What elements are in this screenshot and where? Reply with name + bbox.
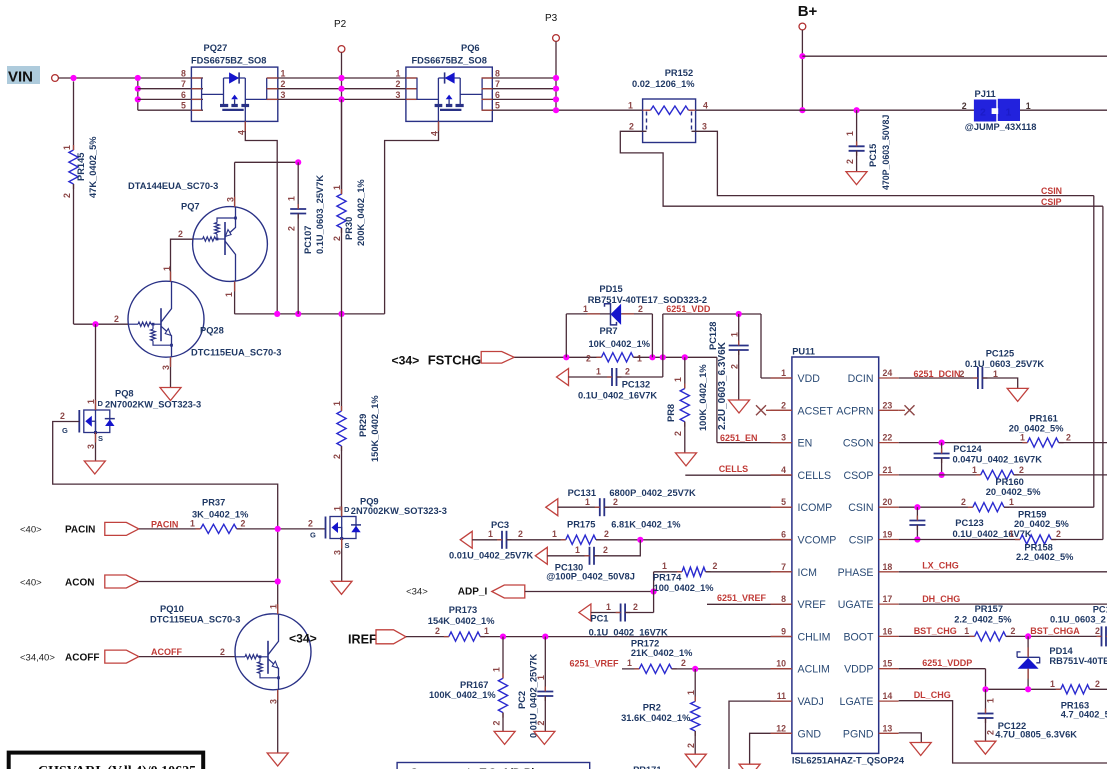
svg-text:2: 2: [603, 545, 608, 555]
wire PQ7 pin3 to PC107 top: [234, 162, 236, 206]
wire PHASE row: [899, 571, 1107, 573]
svg-text:PACIN: PACIN: [151, 520, 178, 530]
svg-text:0.01U_0402_25V7K: 0.01U_0402_25V7K: [449, 551, 534, 561]
resistor PR157: [975, 632, 1006, 641]
svg-text:200K_0402_1%: 200K_0402_1%: [356, 179, 366, 246]
svg-text:PC15: PC15: [868, 144, 878, 167]
resistor PR29: [341, 314, 343, 411]
junction CSON/PC124: [939, 440, 945, 446]
svg-text:1: 1: [606, 602, 611, 612]
svg-text:5: 5: [781, 497, 786, 507]
svg-text:4.7U_0805_6.3V6K: 4.7U_0805_6.3V6K: [995, 730, 1077, 740]
svg-text:1: 1: [396, 69, 401, 79]
svg-text:100K_0402_1%: 100K_0402_1%: [698, 364, 708, 431]
svg-text:21: 21: [883, 465, 893, 475]
svg-text:PR152: PR152: [665, 68, 693, 78]
wire VDDP row: [899, 668, 986, 670]
svg-text:1: 1: [596, 367, 601, 377]
wire PQ28 emitter to ground: [170, 357, 172, 388]
svg-text:CSON: CSON: [843, 438, 874, 450]
svg-text:0.1U_0603_2: 0.1U_0603_2: [1050, 614, 1106, 624]
junction dots FSTCHG row: [563, 354, 569, 360]
svg-text:PHASE: PHASE: [838, 567, 874, 579]
svg-text:PJ11: PJ11: [975, 89, 996, 99]
svg-text:1: 1: [281, 69, 286, 79]
wire row5 PQ6 to PR152: [482, 109, 643, 111]
svg-text:G: G: [62, 426, 68, 435]
svg-text:1: 1: [673, 377, 683, 382]
svg-text:2: 2: [1066, 432, 1071, 442]
wire PQ7 pin1 down: [234, 281, 236, 314]
svg-text:19: 19: [883, 530, 893, 540]
resistor PR158: [1020, 535, 1051, 544]
svg-text:2: 2: [629, 122, 634, 132]
svg-text:10K_0402_1%: 10K_0402_1%: [589, 339, 651, 349]
svg-text:2: 2: [60, 411, 65, 421]
svg-text:PR171: PR171: [633, 765, 661, 769]
svg-text:PR157: PR157: [975, 604, 1003, 614]
wire row7 PQ6-P3: [482, 88, 557, 90]
capacitor PC107: [297, 162, 299, 209]
svg-text:1: 1: [332, 185, 342, 190]
svg-text:16: 16: [883, 626, 893, 636]
junction ACLIM/PR2: [692, 666, 698, 672]
junction VCOMP/PC130: [637, 537, 643, 543]
svg-text:2: 2: [492, 721, 502, 726]
wire pin7 row left: [138, 88, 203, 90]
svg-text:2: 2: [713, 561, 718, 571]
wire PR37 to PQ9 gate: [237, 528, 326, 530]
wire PR152 pin2 to CSIP: [620, 131, 1103, 206]
svg-text:1: 1: [333, 506, 343, 511]
svg-text:1: 1: [627, 658, 632, 668]
capacitor PC123: [916, 507, 918, 520]
svg-text:VDD: VDD: [798, 373, 821, 385]
svg-text:PR174: PR174: [653, 573, 682, 583]
svg-text:6251_EN: 6251_EN: [720, 433, 758, 443]
svg-text:<34>: <34>: [289, 632, 317, 646]
svg-text:<40>: <40>: [20, 525, 42, 536]
svg-text:100K_0402_1%: 100K_0402_1%: [429, 690, 496, 700]
svg-text:BST_CHG: BST_CHG: [914, 626, 957, 636]
capacitor PC15: [856, 110, 858, 146]
svg-text:EN: EN: [798, 438, 813, 450]
svg-text:2: 2: [518, 529, 523, 539]
svg-text:PR161: PR161: [1029, 413, 1057, 423]
svg-text:1: 1: [552, 529, 557, 539]
svg-text:1: 1: [287, 196, 297, 201]
node VIN: [7, 66, 40, 84]
svg-text:2: 2: [962, 101, 967, 111]
svg-text:22: 22: [883, 433, 893, 443]
svg-text:6251_VREF: 6251_VREF: [717, 593, 767, 603]
svg-text:ACOFF: ACOFF: [151, 647, 182, 657]
no-connect ACSET: [756, 405, 766, 415]
svg-text:0.1U_0402_16V7K: 0.1U_0402_16V7K: [953, 529, 1032, 539]
svg-text:1: 1: [269, 604, 279, 609]
svg-text:UGATE: UGATE: [838, 599, 874, 611]
svg-text:BOOT: BOOT: [843, 631, 874, 643]
transistor PQ10: [235, 614, 311, 690]
svg-text:2: 2: [1011, 626, 1016, 636]
svg-text:1: 1: [781, 368, 786, 378]
svg-text:PR159: PR159: [1018, 509, 1046, 519]
junction ACON: [275, 578, 281, 584]
svg-text:6251_VDD: 6251_VDD: [666, 304, 711, 314]
svg-text:PC107: PC107: [303, 226, 313, 254]
wire PQ8 gate net: [53, 422, 278, 615]
junction PC107 top: [295, 159, 301, 165]
wire FSTCHG row: [514, 356, 601, 358]
svg-text:BST_CHGA: BST_CHGA: [1030, 626, 1080, 636]
svg-text:11: 11: [777, 691, 786, 701]
svg-text:8: 8: [495, 69, 500, 79]
svg-text:15: 15: [883, 659, 893, 669]
ground PQ8: [84, 461, 105, 474]
svg-text:1: 1: [662, 561, 667, 571]
svg-text:VADJ: VADJ: [798, 696, 824, 708]
svg-text:2: 2: [308, 519, 313, 529]
svg-text:1: 1: [628, 101, 633, 111]
svg-text:ACSET: ACSET: [798, 405, 834, 417]
wire row6 PQ6-P3: [482, 98, 557, 100]
svg-text:PR7: PR7: [600, 326, 618, 336]
svg-text:CSIN: CSIN: [848, 502, 873, 514]
svg-text:8: 8: [181, 69, 186, 79]
svg-text:2: 2: [1056, 529, 1061, 539]
wire PQ8 drain: [95, 324, 97, 410]
svg-text:2: 2: [332, 236, 342, 241]
resistor PR173: [449, 632, 480, 641]
svg-text:ISL6251AHAZ-T_QSOP24: ISL6251AHAZ-T_QSOP24: [792, 756, 905, 766]
svg-text:2: 2: [638, 304, 643, 314]
junction BOOT/PD14: [1025, 633, 1031, 639]
wire UGATE row: [899, 603, 1107, 605]
svg-text:PC132: PC132: [622, 380, 650, 390]
ground portal PC1: [579, 604, 591, 621]
svg-text:2: 2: [287, 226, 297, 231]
svg-text:3: 3: [702, 122, 707, 132]
svg-text:4: 4: [781, 465, 786, 475]
svg-text:FDS6675BZ_SO8: FDS6675BZ_SO8: [412, 56, 487, 66]
ground portal PC130: [535, 547, 547, 564]
svg-text:ADP_I: ADP_I: [458, 587, 488, 598]
capacitor PC132: [557, 369, 569, 386]
svg-text:2.2_0402_5%: 2.2_0402_5%: [954, 614, 1012, 624]
svg-text:2: 2: [961, 497, 966, 507]
svg-text:2: 2: [241, 519, 246, 529]
wire VDD pin1: [760, 314, 762, 378]
svg-text:DTC115EUA_SC70-3: DTC115EUA_SC70-3: [150, 614, 240, 624]
transistor PQ9: [330, 517, 356, 539]
svg-text:2: 2: [281, 79, 286, 89]
wire row2 PQ27-PQ6: [267, 88, 418, 90]
svg-text:P2: P2: [334, 19, 347, 30]
ground PC122: [975, 741, 996, 754]
wire GND pin12: [750, 733, 792, 764]
capacitor PC131: [558, 506, 600, 508]
svg-text:2N7002KW_SOT323-3: 2N7002KW_SOT323-3: [105, 400, 201, 410]
resistor PR7: [601, 353, 633, 362]
svg-text:PC1: PC1: [1093, 605, 1107, 615]
svg-text:VREF: VREF: [798, 599, 827, 611]
resistor PR159: [973, 503, 1004, 512]
svg-text:DH_CHG: DH_CHG: [922, 594, 960, 604]
svg-text:20_0402_5%: 20_0402_5%: [1014, 519, 1070, 529]
svg-text:0.01U_0402_25V7K: 0.01U_0402_25V7K: [529, 653, 539, 738]
svg-text:PACIN: PACIN: [65, 525, 95, 536]
ground PQ28: [160, 388, 181, 401]
wire PGND row: [899, 733, 922, 743]
svg-text:PR37: PR37: [202, 498, 225, 508]
wire VIN bus vertical: [137, 78, 139, 110]
sense resistor PR152: [643, 99, 696, 143]
svg-text:P3: P3: [545, 13, 558, 24]
svg-text:1: 1: [492, 667, 502, 672]
svg-text:PD14: PD14: [1049, 646, 1073, 656]
wire CSIN row: [899, 506, 973, 508]
resistor PR30: [341, 99, 343, 194]
svg-text:1: 1: [1009, 529, 1014, 539]
svg-text:21K_0402_1%: 21K_0402_1%: [631, 648, 693, 658]
IC PU11 ISL6251: [792, 357, 879, 753]
wire PQ9 source: [341, 539, 343, 582]
junction ADP_I: [651, 588, 657, 594]
wire IREF to chip CHLIM: [480, 636, 792, 638]
svg-text:7: 7: [181, 79, 186, 89]
capacitor PC2: [544, 637, 546, 692]
junction CSIP/PC123: [914, 536, 920, 542]
svg-text:VIN: VIN: [8, 69, 33, 86]
wire CSIP row: [899, 539, 1020, 541]
wire B+ stem: [801, 30, 803, 110]
svg-text:3: 3: [396, 90, 401, 100]
pin stubs PD14: [1027, 647, 1029, 657]
resistor PR2: [694, 669, 696, 702]
transistor PQ28: [128, 281, 204, 357]
resistor PR145: [73, 81, 75, 150]
svg-text:1: 1: [484, 626, 489, 636]
svg-text:470P_0603_50V8J: 470P_0603_50V8J: [881, 115, 891, 190]
svg-text:2: 2: [781, 400, 786, 410]
svg-text:2: 2: [980, 107, 986, 119]
svg-text:31.6K_0402_1%: 31.6K_0402_1%: [621, 713, 691, 723]
junction VDDP/PC122: [982, 686, 988, 692]
wire PR163 row: [986, 688, 1061, 690]
resistor PR37: [201, 524, 237, 533]
junction dots P3 column: [553, 75, 559, 81]
svg-text:B+: B+: [798, 3, 818, 20]
wire CSIN vertical: [1093, 196, 1095, 508]
svg-text:0.047U_0402_16V7K: 0.047U_0402_16V7K: [953, 455, 1043, 465]
wire PQ27 pin4: [245, 121, 277, 314]
svg-text:2: 2: [730, 364, 740, 369]
svg-text:PR2: PR2: [643, 702, 661, 712]
svg-text:<34>: <34>: [406, 587, 428, 598]
ground portal PC3: [460, 531, 472, 548]
terminal VIN: [52, 75, 59, 82]
junction CSOP/PC124: [939, 472, 945, 478]
svg-text:LGATE: LGATE: [840, 696, 874, 708]
svg-text:150K_0402_1%: 150K_0402_1%: [370, 395, 380, 462]
svg-text:0.1U_0402_16V7K: 0.1U_0402_16V7K: [589, 627, 668, 637]
svg-text:ICM: ICM: [798, 567, 817, 579]
junction PD14 anode: [1025, 686, 1031, 692]
svg-text:PC1: PC1: [590, 614, 608, 624]
wire B+ branch: [802, 55, 1107, 57]
wire VIN row: [58, 77, 203, 79]
svg-text:GND: GND: [798, 728, 822, 740]
svg-text:ACON: ACON: [65, 578, 94, 589]
svg-text:1: 1: [86, 399, 96, 404]
svg-text:2.2U_0603_6.3V6K: 2.2U_0603_6.3V6K: [717, 341, 728, 430]
resistor PR175: [566, 535, 596, 544]
wire IREF row: [406, 636, 449, 638]
svg-text:13: 13: [883, 723, 893, 733]
junction PQ8 drain tap: [92, 321, 98, 327]
svg-text:PR29: PR29: [358, 414, 368, 437]
svg-text:1: 1: [1020, 432, 1025, 442]
capacitor PC128: [738, 314, 740, 346]
svg-text:DTA144EUA_SC70-3: DTA144EUA_SC70-3: [128, 181, 218, 191]
resistor PR167: [502, 637, 504, 679]
svg-text:9: 9: [781, 626, 786, 636]
svg-text:CHLIM: CHLIM: [798, 631, 831, 643]
svg-text:2: 2: [681, 658, 686, 668]
ground PC125: [1007, 388, 1028, 401]
svg-text:7: 7: [781, 562, 786, 572]
wire ADP_I row: [525, 591, 654, 593]
transistor PQ8: [84, 410, 110, 433]
svg-text:PQ7: PQ7: [181, 202, 200, 212]
junction dots P2 column: [338, 75, 344, 81]
svg-text:PR160: PR160: [995, 477, 1023, 487]
svg-text:<40>: <40>: [20, 578, 42, 589]
svg-text:2: 2: [613, 497, 618, 507]
svg-text:10: 10: [776, 659, 786, 669]
capacitor PC130: [547, 555, 589, 557]
svg-text:1: 1: [637, 353, 642, 363]
wire BOOT row: [899, 635, 975, 637]
svg-text:4: 4: [703, 101, 708, 111]
capacitor PC124: [941, 443, 943, 454]
svg-text:2: 2: [1095, 626, 1100, 636]
svg-text:2: 2: [604, 529, 609, 539]
svg-text:PR30: PR30: [344, 217, 354, 240]
junction B+/main: [799, 107, 805, 113]
svg-text:2: 2: [986, 730, 996, 735]
wire PR7 to EN corner: [633, 356, 717, 358]
svg-text:CSIP: CSIP: [1041, 197, 1062, 207]
svg-text:ICOMP: ICOMP: [798, 502, 833, 514]
svg-text:2: 2: [114, 314, 119, 324]
capacitor PC122: [985, 689, 987, 713]
svg-text:FSTCHG: FSTCHG: [428, 353, 481, 368]
svg-text:2: 2: [1019, 465, 1024, 475]
svg-text:6: 6: [781, 530, 786, 540]
resistor PR160: [981, 470, 1014, 479]
resistor PR172: [622, 668, 639, 670]
svg-text:1: 1: [993, 369, 998, 379]
svg-text:0.1U_0603_25V7K: 0.1U_0603_25V7K: [965, 359, 1044, 369]
svg-text:1: 1: [1009, 497, 1014, 507]
wire PQ10 emitter to ground: [277, 690, 279, 753]
resistor PR8: [684, 357, 686, 388]
svg-text:1: 1: [162, 266, 172, 271]
wire pin6 row left: [138, 98, 203, 100]
note box bottom-center: [397, 763, 590, 769]
capacitor PC125: [977, 367, 979, 389]
svg-text:6251_VREF: 6251_VREF: [570, 659, 620, 669]
svg-text:1: 1: [964, 626, 969, 636]
svg-text:CSIN: CSIN: [1041, 186, 1062, 196]
junction dots mid bus: [274, 311, 280, 317]
svg-text:PC125: PC125: [986, 348, 1014, 358]
svg-text:@JUMP_43X118: @JUMP_43X118: [965, 122, 1037, 132]
svg-text:23: 23: [883, 400, 893, 410]
pin stubs PR152: [643, 109, 651, 111]
wire PQ8 source: [95, 433, 97, 462]
junctions IREF row: [500, 634, 506, 640]
resistor PR161: [1027, 438, 1058, 447]
svg-text:1: 1: [575, 545, 580, 555]
svg-text:3: 3: [281, 90, 286, 100]
svg-text:DTC115EUA_SC70-3: DTC115EUA_SC70-3: [191, 348, 281, 358]
svg-text:2: 2: [332, 454, 342, 459]
pin stubs transistors: [170, 272, 172, 282]
wire CSIP vertical: [1102, 206, 1104, 539]
wire PC3 to PR175: [507, 539, 566, 541]
ground PQ9: [331, 581, 352, 594]
svg-text:PR8: PR8: [666, 404, 676, 422]
ground PR8: [676, 453, 697, 466]
svg-text:1: 1: [190, 519, 195, 529]
wire PQ6 pin4: [385, 121, 439, 314]
wire ACON row: [139, 581, 278, 583]
svg-text:@100P_0402_50V8J: @100P_0402_50V8J: [546, 572, 635, 582]
svg-text:1: 1: [1006, 107, 1012, 119]
svg-text:0.1U_0603_25V7K: 0.1U_0603_25V7K: [315, 175, 325, 254]
svg-text:PR167: PR167: [460, 680, 488, 690]
svg-text:6: 6: [181, 90, 186, 100]
ground PC2: [534, 731, 555, 744]
transistor PQ6: [406, 67, 492, 121]
junction CSIN/PC123: [914, 504, 920, 510]
svg-text:S: S: [345, 541, 350, 550]
svg-text:PR172: PR172: [631, 638, 659, 648]
svg-text:4.7_0402_5: 4.7_0402_5: [1061, 709, 1107, 719]
wire PACIN row: [139, 528, 201, 530]
diode PD14: [1027, 636, 1029, 657]
svg-text:1: 1: [845, 131, 855, 136]
svg-text:2: 2: [633, 602, 638, 612]
svg-text:20_0402_5%: 20_0402_5%: [1009, 424, 1065, 434]
svg-text:<34>: <34>: [392, 354, 420, 368]
svg-text:CELLS: CELLS: [719, 464, 749, 474]
svg-text:PR145: PR145: [76, 153, 86, 181]
ground portal PC131: [546, 499, 558, 516]
wire CELLS row: [685, 474, 792, 476]
svg-text:S: S: [98, 434, 103, 443]
svg-text:VCOMP: VCOMP: [798, 535, 837, 547]
transistor PQ27: [191, 67, 277, 121]
transistor PQ7: [193, 207, 268, 282]
svg-text:6: 6: [495, 90, 500, 100]
svg-text:PC3: PC3: [491, 520, 509, 530]
svg-text:2: 2: [845, 159, 855, 164]
svg-text:DL_CHG: DL_CHG: [914, 690, 951, 700]
svg-text:D: D: [344, 505, 350, 514]
